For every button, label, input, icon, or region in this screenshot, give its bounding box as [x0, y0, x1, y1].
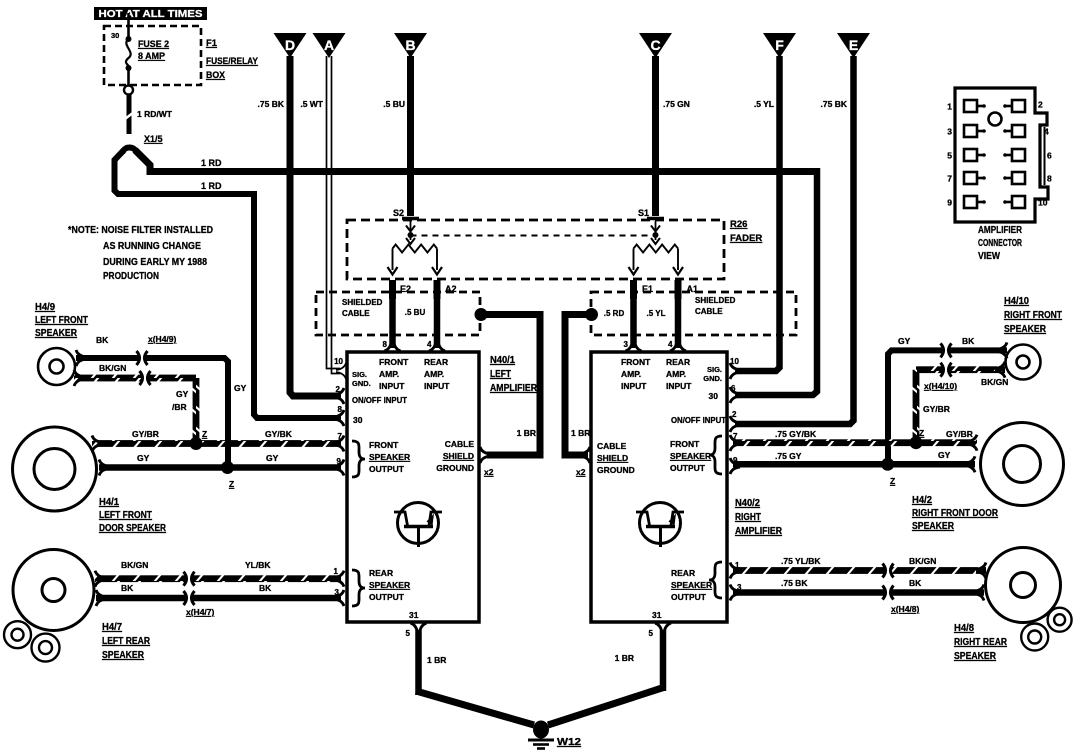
svg-text:YL/BK: YL/BK — [245, 560, 271, 570]
svg-text:1 BR: 1 BR — [517, 428, 536, 438]
wire .5 WT from A to left amp pin 10 (thin pair) — [300, 56, 340, 374]
connector B — [394, 33, 427, 58]
fader terminal S2 — [393, 208, 419, 219]
wire .75 GY - GY to right amp pin 9 — [733, 450, 975, 472]
svg-text:30: 30 — [709, 391, 719, 401]
svg-text:GY/BR: GY/BR — [132, 429, 159, 439]
wire .75 BK from D to left amp pin 2 — [258, 56, 341, 396]
fader R26 box (dashed) — [347, 220, 724, 279]
svg-text:1 RD/WT: 1 RD/WT — [137, 109, 173, 119]
svg-text:PRODUCTION: PRODUCTION — [103, 270, 159, 282]
svg-text:OUTPUT: OUTPUT — [670, 463, 706, 473]
speaker H4/9 left front — [38, 348, 75, 385]
left amp cable shield ground label — [436, 439, 474, 473]
svg-text:x(H4/9): x(H4/9) — [148, 334, 177, 344]
svg-text:8 AMP: 8 AMP — [138, 51, 165, 61]
left amp output transistor — [394, 503, 442, 548]
hot-at-all-times label — [94, 7, 207, 20]
wire .5 BU from B to fader S2 — [383, 56, 410, 216]
svg-text:H4/2: H4/2 — [912, 495, 932, 506]
svg-text:OUTPUT: OUTPUT — [369, 464, 405, 474]
left amplifier N40/1 label — [490, 355, 538, 394]
svg-text:S2: S2 — [393, 208, 404, 218]
svg-text:CABLE: CABLE — [342, 309, 370, 318]
svg-text:AMPLIFIER: AMPLIFIER — [978, 225, 1023, 236]
svg-text:SPEAKER: SPEAKER — [954, 651, 997, 662]
right amp cable shield ground label — [597, 441, 635, 475]
svg-text:FRONT: FRONT — [379, 357, 409, 367]
svg-text:A: A — [324, 37, 334, 53]
right amp pin 10 — [730, 357, 740, 379]
svg-text:AS RUNNING CHANGE: AS RUNNING CHANGE — [103, 240, 201, 252]
svg-text:.5 YL: .5 YL — [647, 309, 666, 318]
right amp pin 6 terminal 30 — [709, 384, 740, 403]
svg-text:BK: BK — [259, 583, 272, 593]
speaker H4/10 right front — [1006, 345, 1041, 380]
connector view pin 9 — [947, 196, 986, 208]
svg-text:D: D — [285, 37, 295, 53]
amplifier connector view caption — [978, 225, 1023, 262]
connector view pin 1 — [947, 100, 986, 112]
svg-text:REAR: REAR — [369, 568, 393, 578]
svg-text:31: 31 — [409, 610, 419, 620]
speaker H4/9 label — [35, 302, 88, 339]
svg-text:GY: GY — [137, 453, 150, 463]
svg-text:AMPLIFIER: AMPLIFIER — [735, 526, 783, 537]
svg-text:SPEAKER: SPEAKER — [369, 580, 410, 590]
svg-text:AMP.: AMP. — [424, 369, 444, 379]
connector view pin 2 — [1003, 100, 1043, 113]
svg-text:x(H4/8): x(H4/8) — [891, 604, 920, 614]
svg-text:OUTPUT: OUTPUT — [671, 592, 707, 602]
wire .75 BK from E to right amp pin 2 — [735, 56, 854, 424]
svg-text:5: 5 — [649, 629, 654, 638]
svg-text:F: F — [775, 37, 784, 53]
wire GY/BR - GY/BK to left amp pin 7 — [92, 429, 341, 452]
svg-text:OUTPUT: OUTPUT — [369, 592, 405, 602]
svg-text:BK: BK — [121, 583, 134, 593]
fuse F2 symbol — [124, 36, 133, 95]
svg-text:1 BR: 1 BR — [615, 653, 634, 663]
svg-text:.75 GN: .75 GN — [663, 99, 690, 109]
svg-text:.5 BU: .5 BU — [405, 308, 426, 317]
svg-text:SIG.: SIG. — [707, 365, 722, 374]
svg-text:REAR: REAR — [424, 357, 448, 367]
wire BK from H4/10 (to GY riser) — [888, 336, 1007, 464]
terminal A1 — [678, 280, 698, 299]
svg-text:LEFT FRONT: LEFT FRONT — [99, 510, 152, 521]
svg-text:GY: GY — [176, 389, 189, 399]
svg-text:RIGHT FRONT: RIGHT FRONT — [1004, 310, 1062, 321]
speaker H4/7 left rear — [13, 550, 94, 631]
svg-text:/BR: /BR — [172, 402, 187, 412]
right amp front speaker output pins 7,9 — [670, 432, 740, 474]
svg-text:RIGHT FRONT DOOR: RIGHT FRONT DOOR — [912, 508, 999, 519]
wire GY to left amp pin 9 — [99, 453, 341, 476]
svg-text:C: C — [650, 37, 660, 53]
svg-text:GY/BR: GY/BR — [946, 429, 973, 439]
svg-text:AMP.: AMP. — [621, 369, 641, 379]
speaker H4/8 tweeters — [1021, 608, 1071, 651]
svg-text:GY/BK: GY/BK — [265, 429, 293, 439]
svg-text:INPUT: INPUT — [379, 381, 405, 391]
right cable shield junction — [585, 308, 598, 321]
wire .75 GN from C to fader S1 — [656, 56, 690, 216]
svg-text:GY: GY — [898, 336, 911, 346]
fader potentiometer right (S1) — [629, 221, 684, 275]
svg-text:.75 BK: .75 BK — [258, 99, 285, 109]
svg-text:CONNECTOR: CONNECTOR — [978, 238, 1023, 249]
connector view pin 10 — [1003, 196, 1048, 208]
svg-text:SPEAKER: SPEAKER — [912, 521, 955, 532]
svg-text:30: 30 — [353, 415, 363, 425]
svg-text:7: 7 — [947, 174, 952, 184]
wire BK - BK to left amp pin 3 — [96, 583, 341, 617]
junction Z on GY/BR — [190, 429, 208, 450]
svg-text:Z: Z — [919, 428, 924, 438]
svg-text:SHIELDED: SHIELDED — [342, 298, 383, 307]
svg-text:SHIELDED: SHIELDED — [695, 296, 736, 305]
terminal E1 — [634, 280, 654, 299]
svg-text:9: 9 — [947, 198, 952, 208]
svg-text:AMPLIFIER: AMPLIFIER — [490, 383, 538, 394]
svg-text:B: B — [405, 37, 415, 53]
connector view pin 6 — [1003, 149, 1052, 161]
svg-text:VIEW: VIEW — [978, 251, 1000, 262]
svg-text:FRONT: FRONT — [670, 439, 700, 449]
left amp pin 2 on/off input — [334, 385, 408, 405]
speaker H4/8 label — [954, 623, 1008, 662]
svg-text:10: 10 — [1038, 198, 1048, 208]
svg-text:.75 BK: .75 BK — [821, 99, 848, 109]
svg-text:GROUND: GROUND — [436, 463, 474, 473]
wire 1 RD/WT from fuse to X1/5 — [125, 94, 173, 134]
svg-text:x2: x2 — [576, 467, 586, 477]
svg-text:.5 WT: .5 WT — [300, 99, 323, 109]
svg-text:6: 6 — [731, 384, 736, 393]
svg-text:3: 3 — [947, 127, 952, 137]
wire BK/GN from H4/10 (to GY/BR riser) — [913, 362, 1009, 439]
svg-text:AMP.: AMP. — [379, 369, 399, 379]
svg-text:GY/BR: GY/BR — [923, 404, 950, 414]
svg-text:S1: S1 — [638, 208, 649, 218]
svg-text:SPEAKER: SPEAKER — [102, 650, 145, 661]
wire BK/GN - YL/BK to left amp pin 1 — [95, 560, 341, 587]
svg-text:R26: R26 — [730, 219, 747, 230]
svg-text:FUSE/RELAY: FUSE/RELAY — [206, 56, 259, 67]
right amp rear speaker output pins 1,3 — [671, 561, 742, 602]
svg-text:2: 2 — [1038, 100, 1043, 110]
connector D — [274, 33, 307, 58]
right amp output transistor — [636, 503, 684, 548]
svg-text:.75 GY/BK: .75 GY/BK — [775, 429, 817, 439]
svg-text:8: 8 — [383, 340, 388, 349]
fader potentiometer left (S2) — [388, 221, 443, 275]
left amp rear speaker output pins 1,3 — [334, 567, 411, 606]
connector C — [639, 33, 672, 58]
terminal E2 — [393, 280, 412, 299]
left shielded cable box (dashed) — [316, 292, 480, 335]
svg-text:.5 YL: .5 YL — [754, 99, 774, 109]
fuse 2 value label — [138, 39, 169, 61]
label x2 right — [576, 467, 586, 477]
connector F — [763, 33, 796, 58]
svg-text:x2: x2 — [484, 467, 494, 477]
svg-text:F1: F1 — [206, 38, 218, 49]
svg-text:GND.: GND. — [352, 379, 371, 388]
right amp sig gnd label — [703, 365, 722, 383]
connector E — [837, 33, 870, 58]
wire 1 BR left shield to left amp cable shield ground — [480, 315, 540, 464]
wire from hot feed to fuse — [127, 13, 130, 38]
wire .5 YL from F to right amp pin 10 — [735, 56, 780, 371]
svg-text:8: 8 — [338, 405, 343, 414]
right amp input labels — [621, 357, 692, 391]
svg-text:3: 3 — [624, 340, 629, 349]
connector X1/5 — [122, 134, 163, 153]
wire 1 RD lower (X1/5 to left amp pin 8) — [115, 150, 342, 418]
svg-text:BK: BK — [909, 578, 922, 588]
fader wiper coupling (dashed) — [411, 235, 656, 237]
wire BK from H4/9 (to GY riser) — [76, 334, 247, 468]
connector view index hole — [989, 113, 1002, 126]
left amp input labels — [379, 357, 450, 391]
connector view pin 8 — [1003, 172, 1052, 184]
svg-text:4: 4 — [427, 340, 432, 349]
svg-text:ON/OFF INPUT: ON/OFF INPUT — [671, 415, 727, 425]
svg-text:H4/9: H4/9 — [35, 302, 55, 313]
svg-text:x(H4/7): x(H4/7) — [186, 607, 215, 617]
svg-text:.5 RD: .5 RD — [604, 309, 625, 318]
amplifier connector view housing — [955, 88, 1048, 222]
svg-text:ON/OFF INPUT: ON/OFF INPUT — [352, 395, 408, 405]
svg-text:1 BR: 1 BR — [427, 655, 446, 665]
svg-text:LEFT: LEFT — [490, 369, 511, 380]
svg-text:FRONT: FRONT — [621, 357, 651, 367]
svg-text:x(H4/10): x(H4/10) — [924, 381, 957, 391]
svg-text:BK: BK — [962, 336, 975, 346]
svg-text:SPEAKER: SPEAKER — [1004, 324, 1047, 335]
wire E2 to left amp pin 8 front amp input — [383, 297, 401, 351]
fuse/relay box F1 (dashed) — [104, 26, 201, 85]
svg-text:SPEAKER: SPEAKER — [670, 451, 711, 461]
right amp pin 31 ground — [649, 610, 671, 638]
wire .75 GY/BK - GY/BR to right amp pin 7 — [733, 429, 977, 451]
terminal A2 — [437, 280, 457, 299]
right shielded cable box (dashed) — [591, 292, 796, 335]
svg-text:N40/2: N40/2 — [735, 498, 760, 509]
svg-text:Z: Z — [890, 476, 895, 486]
svg-text:H4/1: H4/1 — [99, 497, 119, 508]
svg-text:10: 10 — [730, 357, 739, 366]
connector view pin 4 — [1003, 125, 1049, 137]
svg-text:.75 GY: .75 GY — [775, 451, 802, 461]
svg-text:BK/GN: BK/GN — [99, 363, 126, 373]
svg-text:5: 5 — [947, 151, 952, 161]
svg-text:LEFT REAR: LEFT REAR — [102, 636, 151, 647]
connector view pin 5 — [947, 149, 986, 161]
svg-text:Z: Z — [202, 429, 207, 439]
left amp pin 31 ground — [406, 610, 427, 638]
svg-text:7: 7 — [338, 432, 343, 441]
svg-text:DOOR SPEAKER: DOOR SPEAKER — [99, 523, 167, 534]
svg-text:1 RD: 1 RD — [201, 158, 222, 168]
svg-text:SPEAKER: SPEAKER — [35, 328, 78, 339]
svg-text:10: 10 — [334, 357, 343, 366]
svg-text:1: 1 — [334, 567, 339, 576]
speaker H4/1 label — [99, 497, 167, 534]
left amp front speaker output pins 7,9 — [334, 432, 410, 477]
svg-text:AMP.: AMP. — [666, 369, 686, 379]
svg-text:LEFT FRONT: LEFT FRONT — [35, 315, 88, 326]
svg-text:CABLE: CABLE — [597, 441, 627, 451]
wire E1 to right amp pin 3 front amp input — [624, 297, 642, 351]
svg-text:GY: GY — [234, 383, 247, 393]
svg-text:Z: Z — [229, 479, 234, 489]
svg-text:.75 YL/BK: .75 YL/BK — [781, 556, 821, 566]
right amp pin 2 on/off input — [671, 410, 740, 432]
right amplifier N40/2 label — [735, 498, 783, 537]
svg-text:H4/7: H4/7 — [102, 622, 122, 633]
svg-text:BK/GN: BK/GN — [121, 560, 148, 570]
speaker H4/8 right rear — [986, 548, 1061, 623]
connector view pin 3 — [947, 125, 986, 137]
svg-text:5: 5 — [406, 629, 411, 638]
svg-text:REAR: REAR — [666, 357, 690, 367]
wire 1 RD upper (X1/5 to right) — [135, 150, 817, 172]
svg-text:SPEAKER: SPEAKER — [369, 452, 410, 462]
svg-text:X1/5: X1/5 — [144, 134, 163, 144]
svg-text:4: 4 — [1044, 127, 1049, 137]
wire BK/GN from H4/9 (to GY/BR riser) — [74, 363, 199, 440]
svg-text:GND.: GND. — [703, 374, 722, 383]
svg-text:1: 1 — [947, 102, 952, 112]
svg-text:RIGHT REAR: RIGHT REAR — [954, 637, 1008, 648]
left amp sig gnd label — [352, 370, 371, 388]
svg-text:SHIELD: SHIELD — [597, 453, 628, 463]
note text — [68, 224, 213, 282]
fader terminal S1 — [638, 208, 664, 219]
svg-text:GY: GY — [938, 450, 951, 460]
svg-text:6: 6 — [1047, 151, 1052, 161]
svg-text:1 RD: 1 RD — [201, 181, 222, 191]
wire .75 BK - BK to right amp pin 3 — [733, 578, 984, 614]
svg-text:FADER: FADER — [730, 233, 762, 244]
svg-text:INPUT: INPUT — [666, 381, 692, 391]
svg-text:SIG.: SIG. — [352, 370, 367, 379]
left amp pin 8 terminal 30 — [334, 405, 363, 426]
connector A — [313, 33, 346, 58]
speaker H4/10 label — [1004, 296, 1062, 335]
svg-text:SHIELD: SHIELD — [443, 451, 474, 461]
svg-text:GROUND: GROUND — [597, 465, 635, 475]
wire .75 YL/BK - BK/GN to right amp pin 1 — [733, 556, 986, 579]
left cable shield junction — [475, 308, 488, 321]
svg-text:.5 BU: .5 BU — [383, 99, 405, 109]
svg-text:CABLE: CABLE — [445, 439, 475, 449]
label x2 left — [484, 467, 494, 477]
left amp pin 10 — [334, 357, 346, 379]
speaker H4/7 label — [102, 622, 151, 661]
svg-text:1 BR: 1 BR — [571, 428, 590, 438]
svg-text:REAR: REAR — [671, 568, 695, 578]
svg-text:H4/10: H4/10 — [1004, 296, 1029, 307]
svg-text:2: 2 — [732, 410, 737, 419]
speaker H4/1 left front door — [13, 427, 97, 511]
right amplifier N40/2 box — [591, 352, 727, 622]
svg-text:BK/GN: BK/GN — [909, 556, 936, 566]
left amplifier N40/1 box — [347, 352, 479, 622]
svg-text:RIGHT: RIGHT — [735, 512, 761, 523]
svg-text:DURING EARLY MY 1988: DURING EARLY MY 1988 — [103, 256, 207, 268]
svg-text:HOT AT ALL TIMES: HOT AT ALL TIMES — [99, 8, 203, 20]
speaker H4/7 tweeters — [4, 621, 60, 661]
svg-text:BK/GN: BK/GN — [981, 377, 1008, 387]
svg-text:E: E — [849, 37, 858, 53]
wire A1 to right amp pin 4 rear amp input — [668, 297, 686, 351]
svg-text:4: 4 — [668, 340, 673, 349]
wire A2 to left amp pin 4 rear amp input — [427, 297, 445, 351]
F1 fuse/relay box label — [206, 38, 259, 81]
svg-text:*NOTE: NOISE FILTER INSTALLED: *NOTE: NOISE FILTER INSTALLED — [68, 224, 213, 236]
svg-text:FUSE 2: FUSE 2 — [138, 39, 169, 50]
svg-text:BOX: BOX — [206, 70, 226, 81]
wire 1 BR right amp pin 31 to W12 — [548, 630, 665, 725]
junction Z on GY/BR right — [910, 428, 925, 449]
svg-text:30: 30 — [111, 31, 119, 40]
fader R26 label — [730, 219, 762, 244]
wire 1 BR right shield to right amp cable shield ground — [565, 315, 590, 464]
connector view pin 7 — [947, 172, 986, 184]
svg-text:2: 2 — [336, 385, 341, 394]
wire 1 BR left amp pin 31 to W12 — [416, 630, 534, 725]
junction Z on GY right — [881, 458, 895, 486]
svg-text:FRONT: FRONT — [369, 440, 399, 450]
speaker H4/2 right front door — [981, 423, 1064, 506]
svg-text:BK: BK — [96, 335, 109, 345]
svg-text:INPUT: INPUT — [621, 381, 647, 391]
svg-text:.75 BK: .75 BK — [781, 578, 808, 588]
svg-text:SPEAKER: SPEAKER — [671, 580, 712, 590]
wire 1 RD vertical to right amp pin 6 — [735, 168, 817, 395]
svg-text:H4/8: H4/8 — [954, 623, 974, 634]
svg-text:8: 8 — [1047, 174, 1052, 184]
svg-text:W12: W12 — [557, 737, 582, 748]
svg-text:CABLE: CABLE — [695, 307, 723, 316]
speaker H4/2 label — [912, 495, 999, 532]
svg-text:31: 31 — [652, 610, 662, 620]
ground W12 — [528, 721, 582, 749]
svg-text:INPUT: INPUT — [424, 381, 450, 391]
junction Z on GY — [221, 461, 234, 489]
svg-text:GY: GY — [266, 453, 279, 463]
svg-text:N40/1: N40/1 — [490, 355, 515, 366]
